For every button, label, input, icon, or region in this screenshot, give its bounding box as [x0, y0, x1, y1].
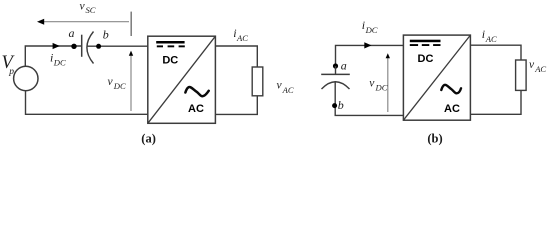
- wire converter to load top (a): [215, 46, 257, 67]
- svg-text:v: v: [369, 78, 375, 90]
- svg-text:a: a: [341, 59, 347, 73]
- converter box (a): [148, 36, 216, 123]
- svg-text:DC: DC: [53, 58, 66, 68]
- wire left rail bottom: [26, 91, 148, 115]
- wire load bottom to converter (a): [215, 96, 257, 115]
- svg-text:DC: DC: [162, 55, 178, 67]
- v_SC reference tick: [130, 12, 132, 36]
- svg-text:(a): (a): [141, 132, 156, 146]
- svg-text:p: p: [8, 67, 14, 77]
- DC symbol solid bar (b): [410, 40, 441, 43]
- wire load bottom to converter (b): [470, 90, 521, 114]
- node a dot: [71, 44, 76, 49]
- svg-text:(b): (b): [427, 132, 442, 146]
- svg-text:AC: AC: [236, 33, 248, 43]
- AC sine symbol (b): [441, 85, 461, 93]
- node b dot: [96, 44, 101, 49]
- node a dot (b): [333, 63, 338, 68]
- svg-text:a: a: [69, 26, 75, 40]
- svg-text:v: v: [277, 80, 283, 92]
- wire capacitor top to converter (b): [336, 45, 404, 66]
- DC symbol dashed bar (a): [157, 45, 163, 47]
- v_DC arrow (b): [387, 58, 389, 112]
- converter box (b): [403, 35, 470, 120]
- svg-text:DC: DC: [418, 53, 434, 65]
- svg-text:AC: AC: [444, 103, 460, 115]
- svg-text:b: b: [338, 98, 344, 112]
- load resistor (a): [252, 67, 263, 96]
- svg-text:i: i: [482, 27, 485, 41]
- svg-text:AC: AC: [188, 103, 204, 115]
- supercapacitor straight plate: [81, 35, 83, 57]
- converter diagonal (a): [148, 36, 216, 123]
- DC symbol dashed bar (b): [410, 44, 418, 46]
- AC sine symbol (a): [185, 87, 208, 96]
- converter diagonal (b): [403, 35, 470, 120]
- wire from curved plate to node b and to converter: [87, 45, 148, 47]
- supercapacitor straight plate (b): [321, 73, 350, 75]
- svg-text:b: b: [103, 28, 109, 42]
- supercapacitor curved plate: [87, 32, 94, 64]
- svg-text:v: v: [108, 76, 114, 88]
- svg-text:AC: AC: [534, 64, 546, 74]
- DC symbol solid bar (a): [156, 41, 184, 44]
- voltage source Vp circle: [14, 66, 38, 90]
- svg-text:DC: DC: [375, 82, 388, 92]
- svg-text:AC: AC: [282, 85, 294, 95]
- wire curved plate to node b and bottom rail (b): [335, 81, 403, 115]
- svg-text:SC: SC: [86, 5, 96, 15]
- v_SC measurement arrow: [41, 21, 130, 23]
- node b dot (b): [332, 103, 337, 108]
- wire converter to load top (b): [470, 45, 521, 60]
- wire left rail top: [25, 46, 81, 66]
- current arrow i_DC (b): [364, 42, 371, 48]
- svg-text:DC: DC: [113, 81, 126, 91]
- current arrow i_DC: [53, 43, 60, 49]
- load resistor (b): [516, 60, 527, 90]
- svg-text:v: v: [529, 59, 535, 71]
- svg-text:AC: AC: [485, 34, 497, 44]
- supercapacitor curved plate (b): [322, 82, 350, 89]
- svg-text:DC: DC: [365, 25, 378, 35]
- v_DC arrow (a): [130, 55, 132, 111]
- wire node a to plate (b): [335, 66, 337, 74]
